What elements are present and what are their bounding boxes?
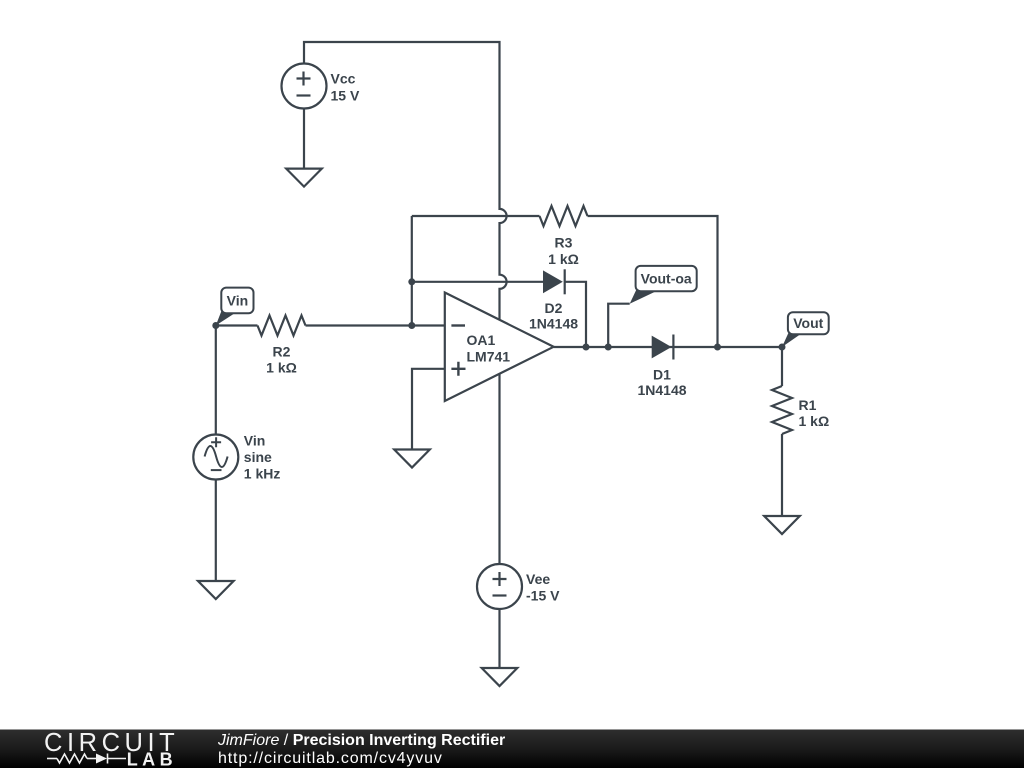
svg-text:http://circuitlab.com/cv4yvuv: http://circuitlab.com/cv4yvuv bbox=[218, 750, 443, 767]
svg-text:1N4148: 1N4148 bbox=[529, 315, 578, 331]
svg-text:1 kΩ: 1 kΩ bbox=[799, 413, 830, 429]
svg-text:JimFiore / Precision Inverting: JimFiore / Precision Inverting Rectifier bbox=[217, 732, 505, 749]
svg-text:Vee: Vee bbox=[526, 571, 550, 587]
svg-text:1 kΩ: 1 kΩ bbox=[266, 359, 297, 375]
svg-text:Vin: Vin bbox=[244, 432, 266, 448]
svg-text:Vcc: Vcc bbox=[331, 71, 356, 87]
svg-text:R3: R3 bbox=[555, 235, 573, 251]
svg-text:1N4148: 1N4148 bbox=[637, 382, 686, 398]
svg-text:Vout-oa: Vout-oa bbox=[641, 271, 692, 287]
svg-text:LM741: LM741 bbox=[467, 349, 511, 365]
svg-text:Vout: Vout bbox=[793, 315, 823, 331]
svg-text:sine: sine bbox=[244, 449, 272, 465]
svg-text:D2: D2 bbox=[545, 300, 563, 316]
svg-text:R2: R2 bbox=[273, 344, 291, 360]
svg-text:Vin: Vin bbox=[227, 293, 249, 309]
svg-text:15 V: 15 V bbox=[331, 88, 360, 104]
svg-text:OA1: OA1 bbox=[467, 332, 496, 348]
svg-text:D1: D1 bbox=[653, 367, 671, 383]
svg-text:1 kΩ: 1 kΩ bbox=[548, 251, 579, 267]
svg-text:R1: R1 bbox=[799, 397, 817, 413]
svg-text:1 kHz: 1 kHz bbox=[244, 466, 281, 482]
svg-text:LAB: LAB bbox=[127, 750, 178, 768]
svg-text:-15 V: -15 V bbox=[526, 587, 560, 603]
